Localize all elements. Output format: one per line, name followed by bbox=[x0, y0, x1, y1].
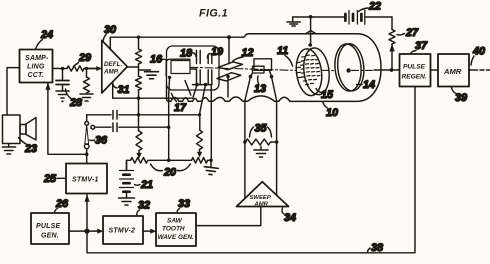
wire (mic to sampling cct) bbox=[7, 68, 20, 115]
label 32 bbox=[137, 200, 151, 216]
node (box 13 right) bbox=[270, 75, 274, 79]
electrode box 13 (lower cup) bbox=[253, 66, 265, 73]
node (line A at 200.6) bbox=[198, 113, 201, 116]
svg-text:29: 29 bbox=[78, 52, 91, 64]
microphone 23 bbox=[3, 115, 37, 144]
gas tube 36 bbox=[84, 115, 89, 155]
sawtooth generator box 33 bbox=[156, 213, 196, 246]
svg-text:STMV-2: STMV-2 bbox=[109, 228, 136, 235]
wire (junction to STMV-1 top) bbox=[86, 154, 88, 163]
label 30 bbox=[103, 24, 116, 42]
grid 18 bbox=[197, 51, 201, 85]
label 17 bbox=[172, 94, 188, 115]
label 27 bbox=[397, 27, 419, 39]
svg-text:FIG.1: FIG.1 bbox=[199, 8, 228, 20]
svg-text:WAVE GEN.: WAVE GEN. bbox=[158, 234, 195, 241]
svg-text:11: 11 bbox=[277, 45, 288, 57]
svg-text:LING: LING bbox=[27, 64, 45, 71]
resistor 35 bbox=[245, 139, 276, 145]
wire (to mesh 15 from supply) bbox=[310, 17, 312, 45]
wire (feedback to sampling cct) bbox=[48, 83, 87, 154]
label 23 bbox=[19, 138, 38, 156]
wire (24 output) bbox=[53, 68, 99, 70]
svg-text:13: 13 bbox=[254, 83, 266, 95]
grid 19 bbox=[208, 56, 212, 85]
wire (divider mid tap to ground) bbox=[139, 69, 151, 71]
monostable STMV-2 box 32 bbox=[103, 216, 143, 244]
op-amp deflection amplifier 30 bbox=[102, 40, 128, 93]
monostable STMV-1 box 25 bbox=[66, 164, 107, 194]
wire (box 13 stubs) bbox=[251, 70, 272, 76]
label 14 bbox=[357, 79, 376, 91]
wire (STMV-1 bottom) bbox=[86, 194, 88, 232]
wire (pulse gen to junction) bbox=[69, 230, 87, 232]
label 24 bbox=[36, 29, 54, 49]
wire (chain stubs) bbox=[138, 37, 140, 131]
label 31 bbox=[113, 84, 130, 96]
svg-text:21: 21 bbox=[140, 179, 153, 191]
svg-text:27: 27 bbox=[405, 27, 419, 39]
node (R35 right) bbox=[275, 140, 279, 144]
svg-text:SAMP-: SAMP- bbox=[25, 55, 49, 62]
node (output junction) bbox=[390, 68, 394, 72]
wire (amp bottom corner to chain bottom) bbox=[113, 83, 193, 99]
battery 21 bbox=[120, 160, 134, 198]
node (tie at 200.6) bbox=[204, 83, 208, 87]
collector disc 14 bbox=[333, 43, 366, 93]
label 15 bbox=[316, 89, 334, 102]
wire (lower plate lead) bbox=[227, 77, 229, 97]
node (junction line A) bbox=[137, 113, 140, 116]
node (line B end) bbox=[167, 126, 170, 129]
label 39 bbox=[452, 88, 468, 105]
wire (amp top to rail) bbox=[109, 37, 111, 49]
svg-text:DEFL.: DEFL. bbox=[104, 61, 122, 68]
node (supply junction) bbox=[309, 15, 313, 19]
amplifier AMR box 39 bbox=[438, 54, 469, 87]
wire (into defl amp) bbox=[87, 68, 98, 70]
tube envelope 10 bbox=[243, 34, 381, 102]
pulse generator box 26 bbox=[31, 213, 69, 244]
label 36 bbox=[90, 135, 109, 147]
node (box 13 left) bbox=[249, 75, 253, 79]
wire (amp output to divider) bbox=[127, 66, 138, 68]
wire (battery to R27) bbox=[391, 17, 393, 30]
wire (lead 192.5 to bottom bus) bbox=[193, 85, 197, 99]
label 34 bbox=[282, 208, 296, 224]
label 18 bbox=[180, 48, 196, 60]
cathode 16 bbox=[166, 59, 196, 95]
svg-text:37: 37 bbox=[415, 40, 428, 52]
label 40 bbox=[471, 46, 485, 66]
node (junction after 29) bbox=[85, 67, 88, 70]
label 25 bbox=[43, 173, 65, 185]
wire (left pot to battery) bbox=[127, 160, 131, 170]
label 19 bbox=[207, 46, 223, 58]
node (lower plate) bbox=[226, 75, 229, 78]
electrode box 13 bbox=[254, 59, 272, 71]
label 10 bbox=[323, 103, 338, 120]
svg-text:19: 19 bbox=[211, 46, 223, 58]
svg-text:25: 25 bbox=[43, 173, 57, 185]
label 16 bbox=[150, 54, 166, 66]
wiper arrow (left pot) bbox=[137, 151, 141, 159]
resistor (left bias, above pot 20) bbox=[136, 131, 142, 150]
svg-text:CCT.: CCT. bbox=[28, 72, 45, 79]
node (mesh top) bbox=[308, 43, 312, 47]
node (chain bottom junction) bbox=[137, 97, 140, 100]
label 38 bbox=[368, 242, 384, 254]
envelope seal bump (top) bbox=[306, 31, 317, 34]
resistor 27 bbox=[389, 30, 395, 45]
svg-text:AMR: AMR bbox=[254, 201, 269, 207]
node (junction above STMV-1) bbox=[85, 153, 89, 157]
svg-text:31: 31 bbox=[118, 84, 130, 96]
svg-text:23: 23 bbox=[24, 143, 37, 155]
label 22 bbox=[359, 1, 382, 13]
wire (STMV-2 to sawtooth with arrow) bbox=[143, 230, 152, 232]
amplifier SWEEP AMR 34 bbox=[237, 182, 289, 208]
node (cathode lead at pot line) bbox=[167, 159, 171, 163]
wire (sweep amp right output to tube) bbox=[272, 77, 277, 196]
wire (right pot to ground) bbox=[208, 160, 212, 166]
svg-text:GEN.: GEN. bbox=[41, 233, 59, 240]
wire (upper plate lead to rail) bbox=[228, 37, 230, 64]
pulse regenerator box 37 bbox=[400, 54, 431, 87]
wire (cathode lead down) bbox=[168, 95, 170, 160]
wiper arrow (right pot) bbox=[197, 150, 201, 158]
svg-text:22: 22 bbox=[368, 1, 381, 13]
wire (sweep amp left output to tube) bbox=[245, 77, 251, 199]
svg-text:35: 35 bbox=[255, 123, 268, 135]
wire (R27 down to junction, arrow up) bbox=[391, 44, 393, 70]
svg-text:20: 20 bbox=[163, 167, 176, 179]
wire (lead 200.6 to line A and resistor) bbox=[200, 85, 206, 130]
wire (junction to STMV-2 with arrow) bbox=[87, 230, 99, 232]
svg-text:PULSE: PULSE bbox=[36, 223, 60, 230]
label 37 bbox=[411, 40, 429, 54]
node (junction at cap 28) bbox=[61, 67, 64, 70]
node (right pot end) bbox=[209, 159, 213, 163]
svg-text:10: 10 bbox=[326, 107, 338, 119]
wire (pulse regen to AMR) bbox=[431, 69, 439, 71]
wire (grid tie line) bbox=[193, 84, 212, 86]
ground (right pot) bbox=[204, 167, 219, 176]
capacitor (upper coupling) bbox=[87, 111, 200, 120]
envelope seal scallops bbox=[167, 85, 291, 101]
svg-text:SWEEP: SWEEP bbox=[250, 195, 271, 201]
svg-text:14: 14 bbox=[363, 79, 375, 91]
ground (HT supply) bbox=[287, 17, 344, 26]
resistor (upper of divider) bbox=[136, 49, 142, 64]
svg-text:17: 17 bbox=[174, 102, 187, 114]
gun enclosure (grid structure 17) bbox=[167, 46, 220, 90]
svg-text:AMR: AMR bbox=[443, 67, 462, 76]
wire (feedback line 38) bbox=[87, 87, 415, 253]
svg-text:AMP.: AMP. bbox=[103, 69, 119, 76]
label 29 bbox=[74, 52, 92, 67]
wire (lead to right pot) bbox=[210, 85, 212, 161]
svg-text:18: 18 bbox=[180, 48, 192, 60]
label 35 bbox=[250, 123, 272, 138]
capacitor 28 bbox=[56, 69, 69, 92]
ground (under microphone) bbox=[3, 144, 16, 155]
label 12 bbox=[233, 47, 254, 62]
resistor (shunt at amp input) bbox=[84, 69, 90, 93]
svg-text:SAW: SAW bbox=[167, 218, 183, 225]
svg-text:38: 38 bbox=[371, 242, 383, 254]
storage mesh 15 bbox=[294, 46, 332, 97]
svg-text:15: 15 bbox=[321, 89, 334, 101]
ground (under shunt resistor) bbox=[80, 94, 93, 101]
ground (divider tap) bbox=[145, 72, 159, 79]
node (tie at 192.5) bbox=[195, 83, 199, 87]
svg-text:REGEN.: REGEN. bbox=[402, 74, 427, 81]
node (rail junction at resistor chain) bbox=[137, 36, 140, 39]
label 33 bbox=[177, 198, 190, 213]
deflection plates 12 bbox=[217, 62, 243, 81]
wire (sawtooth to sweep amp) bbox=[196, 207, 261, 226]
resistor (lower of divider) bbox=[136, 76, 142, 90]
svg-text:TOOTH: TOOTH bbox=[162, 226, 185, 233]
ground (below R35) bbox=[254, 147, 268, 158]
resistor 29 bbox=[67, 66, 84, 71]
node (R35 left) bbox=[243, 140, 247, 144]
potentiometer 20 (left) bbox=[131, 158, 148, 164]
wire (top rail) bbox=[110, 36, 243, 38]
capacitor (lower coupling) bbox=[91, 123, 169, 132]
battery 22 bbox=[345, 10, 392, 24]
label 28 bbox=[66, 89, 83, 109]
sampling circuit box 24 bbox=[20, 50, 53, 83]
label 21 bbox=[135, 179, 154, 191]
label 20 bbox=[151, 164, 191, 179]
wire (output 40 with dashes) bbox=[469, 69, 478, 71]
svg-text:34: 34 bbox=[284, 212, 296, 224]
svg-text:39: 39 bbox=[455, 92, 467, 104]
svg-text:STMV-1: STMV-1 bbox=[72, 177, 99, 184]
wire (between pots) bbox=[149, 159, 192, 161]
node (main bottom junction) bbox=[84, 229, 89, 234]
ground (under cap 28) bbox=[56, 91, 69, 101]
resistor (right bias, above pot) bbox=[197, 130, 203, 149]
wire (disc to output, dash-dot) bbox=[352, 69, 375, 71]
ground (under battery 21) bbox=[119, 198, 135, 205]
label 26 bbox=[55, 198, 70, 213]
node (rail at plate lead) bbox=[227, 35, 231, 39]
label 13 bbox=[254, 76, 266, 95]
potentiometer 20 (right) bbox=[192, 158, 208, 164]
svg-text:36: 36 bbox=[95, 135, 108, 147]
node (disc center) bbox=[346, 68, 350, 72]
label 11 bbox=[277, 45, 293, 66]
svg-text:PULSE: PULSE bbox=[403, 64, 426, 71]
beam axis 11 bbox=[190, 67, 296, 70]
